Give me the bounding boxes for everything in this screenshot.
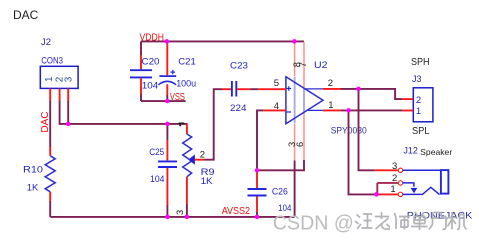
J12 switch contact from pin 2 [403, 183, 414, 187]
capacitor C21 (polarized) [158, 41, 196, 95]
svg-text:U2: U2 [314, 60, 328, 71]
svg-text:J2: J2 [41, 37, 51, 48]
U2 output stub lower (blue) [307, 109, 323, 111]
capacitor C26 [248, 170, 292, 214]
U2 pin 3 stub (lower left power) [294, 124, 296, 161]
wire op-amp pin4 feedback [257, 110, 263, 170]
svg-text:J3: J3 [412, 74, 422, 84]
op-amp U2 SPY0030 [258, 42, 366, 217]
wire SPH branch down to jack pin 3 [359, 89, 375, 170]
U2 output stub upper (blue) [304, 88, 323, 90]
junction AVSS2-C26 [255, 215, 260, 220]
svg-text:C21: C21 [178, 57, 196, 68]
wire VDDH rail [141, 40, 304, 42]
svg-text:C23: C23 [230, 60, 248, 71]
phone jack J12 [375, 146, 473, 221]
J12 barrel [441, 170, 449, 194]
wire J2 pin3 down to junction [67, 101, 69, 124]
svg-text:2: 2 [392, 173, 397, 184]
junction jack pins 1-2 [374, 192, 379, 197]
C21 plus sign [171, 70, 176, 75]
U2 pin 6 stub [303, 112, 305, 160]
C23 plates [232, 81, 236, 97]
svg-text:1: 1 [328, 100, 333, 111]
char ji [448, 212, 467, 230]
svg-text:J12: J12 [403, 146, 418, 156]
wire C21 bottom to VSS rail [166, 95, 168, 101]
J12 sleeve contact with spring bump [403, 187, 440, 194]
svg-text:C25: C25 [149, 147, 164, 158]
C23 right pin [237, 88, 250, 90]
J2 body [40, 66, 78, 88]
C21 bottom pin [166, 84, 168, 95]
wire feedback node to pins 3/6 column [257, 160, 304, 170]
R9 top pin [186, 124, 188, 134]
wire R9 bottom to AVSS2 rail [186, 204, 188, 217]
svg-text:DAC: DAC [13, 8, 39, 22]
svg-text:3: 3 [175, 210, 185, 215]
J12 pin 2 link wire [377, 183, 398, 195]
C21 straight plate [159, 75, 176, 77]
junction AVSS2-C25 [165, 215, 170, 220]
capacitor C23 [222, 60, 250, 113]
svg-text:1K: 1K [201, 176, 214, 187]
U2 pin 1 [323, 109, 341, 111]
C21 curved plate [158, 81, 176, 85]
svg-text:2: 2 [328, 78, 333, 89]
potentiometer R9 [175, 123, 214, 215]
capacitor C20 [130, 55, 160, 94]
wire R9 wiper to C23 [205, 89, 223, 160]
R9 wiper pin [195, 159, 205, 161]
R9 bottom pin [186, 177, 188, 204]
svg-text:C20: C20 [142, 57, 160, 68]
junction VDDH-C21 [165, 39, 170, 44]
svg-text:6: 6 [295, 142, 305, 147]
junction VSS-C21 [165, 99, 170, 104]
C23 left pin [222, 88, 231, 90]
J12 pin 2 terminal circle [398, 181, 402, 185]
R10 zigzag [45, 156, 55, 192]
svg-text:104: 104 [142, 81, 159, 92]
J3 pin 2 stub [403, 98, 414, 100]
svg-text:1: 1 [416, 106, 421, 117]
J12 tip contact line [403, 169, 441, 171]
svg-text:2: 2 [416, 95, 421, 106]
char shi [395, 213, 410, 230]
J3 pin 1 stub [403, 110, 414, 112]
svg-text:104: 104 [150, 174, 165, 185]
wire SPL branch down to jack pin 1 [349, 110, 377, 194]
C26 top pin from feedback node [256, 170, 258, 188]
U2 minus input marker [287, 111, 291, 113]
C25 top pin [166, 140, 168, 160]
C26 plates [248, 189, 267, 196]
J2 pin 3 stub [67, 88, 69, 101]
J2 pin 1 stub [49, 88, 51, 101]
C20 bottom pin [140, 78, 142, 94]
char lao [375, 212, 390, 229]
svg-text:1K: 1K [27, 183, 39, 194]
R10 top pin [49, 147, 51, 156]
svg-text:CSDN @: CSDN @ [273, 211, 354, 234]
J12 pin 3 lead [375, 169, 399, 171]
C25 bottom pin [166, 168, 168, 205]
J12 plug tip marker [411, 188, 418, 193]
char pian [429, 212, 446, 230]
svg-text:AVSS2: AVSS2 [222, 206, 251, 217]
svg-text:SPH: SPH [411, 57, 430, 68]
wire C20 bottom to VSS rail [140, 94, 142, 101]
svg-text:1: 1 [44, 76, 55, 82]
C20 top pin [140, 55, 142, 69]
wire VDDH rail left drop to C20 [140, 41, 142, 55]
junction feedback node [255, 168, 260, 173]
U2 pin 2 [323, 88, 341, 90]
wire C23 to op-amp pin 5 [250, 88, 258, 90]
U2 triangle body [286, 77, 323, 124]
svg-text:4: 4 [274, 101, 279, 112]
watermark chinese characters [355, 212, 467, 230]
junction VDDH-pin8 [292, 39, 297, 44]
capacitor C25 [149, 140, 177, 205]
R10 bottom pin [49, 192, 51, 201]
C20 plates [130, 70, 152, 77]
svg-text:Speaker: Speaker [420, 147, 452, 157]
connector J3 [403, 74, 433, 122]
resistor R10 [23, 147, 55, 201]
J3 body [413, 88, 433, 122]
U2 pin 4 [263, 109, 286, 111]
C26 bottom pin [256, 197, 258, 213]
svg-text:3: 3 [64, 76, 75, 82]
junction SPH branch [356, 87, 361, 92]
svg-text:1: 1 [390, 184, 395, 195]
R9 wiper arrow [188, 155, 195, 165]
C25 plates [158, 161, 177, 167]
junction DAC-pin3 [66, 122, 71, 127]
svg-text:R10: R10 [23, 165, 43, 176]
wire AVSS2 bottom rail [50, 216, 294, 218]
wire C25 bottom to AVSS2 rail [166, 205, 168, 217]
J12 pin 3 terminal circle [398, 168, 402, 172]
wire U2 pin2 to J3 pin2 (SPH net) [341, 89, 403, 99]
wire J2 pin2 down and DAC bus [60, 101, 188, 124]
svg-text:100u: 100u [176, 79, 196, 90]
R9 zigzag [183, 134, 192, 177]
wire C26 bottom to AVSS2 rail [256, 212, 258, 217]
U2 pin 7 internal trace [303, 89, 305, 112]
watermark CSDN @ [273, 211, 354, 234]
svg-text:3: 3 [392, 161, 397, 172]
U2 plus input marker [287, 86, 291, 91]
junction DAC-C25 [165, 122, 170, 127]
wire VSS rail [141, 100, 186, 102]
wire R10 to AVSS2 rail [49, 201, 51, 217]
svg-text:7: 7 [298, 62, 308, 67]
J2 pin 2 stub [59, 88, 61, 101]
char wang [355, 214, 373, 229]
svg-text:5: 5 [274, 78, 279, 89]
svg-text:224: 224 [230, 103, 247, 114]
U2 pin 8 stub (power) [294, 42, 296, 77]
U2 pin 8 internal trace [294, 77, 296, 124]
svg-text:SPL: SPL [412, 126, 430, 137]
wire J2 pin1 to R10 [49, 101, 51, 147]
wire U2 pin1 to J3 pin1 (SPL net) [341, 109, 403, 111]
J12 pin 1 terminal circle [398, 192, 402, 196]
junction SPL branch [346, 108, 351, 113]
wire pin 3 to AVSS2 rail [294, 161, 296, 217]
J12 pin 1 lead [377, 193, 399, 195]
char dan [411, 212, 428, 230]
svg-text:VSS: VSS [170, 92, 185, 103]
U2 pin 5 [258, 88, 286, 90]
connector J2 [40, 37, 78, 101]
wire C25 top branch [166, 124, 168, 140]
R9 pin 1 number (rotated) [179, 123, 185, 126]
junction AVSS2-R9 [185, 215, 190, 220]
svg-text:CON3: CON3 [41, 56, 63, 67]
C21 top pin [166, 41, 168, 75]
svg-text:C26: C26 [272, 186, 288, 197]
U2 pin 7 stub (power) [303, 42, 305, 88]
